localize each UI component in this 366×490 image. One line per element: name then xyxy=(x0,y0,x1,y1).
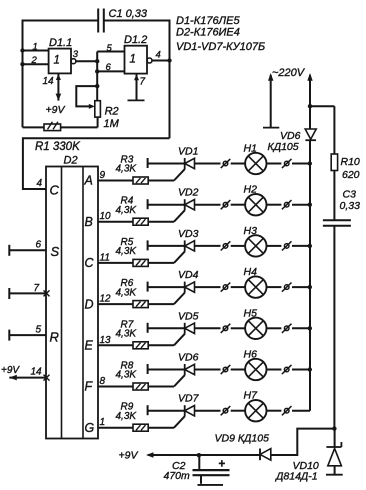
resistor R8 4,3K xyxy=(133,383,148,390)
svg-text:4,3K: 4,3K xyxy=(116,329,138,340)
svg-text:9: 9 xyxy=(100,170,106,181)
resistor R5 4,3K xyxy=(133,259,148,266)
svg-text:H7: H7 xyxy=(244,390,259,402)
svg-text:C: C xyxy=(50,183,60,198)
svg-text:H1: H1 xyxy=(244,143,257,155)
svg-text:4,3K: 4,3K xyxy=(116,370,138,381)
svg-text:H2: H2 xyxy=(244,184,258,196)
svg-text:R: R xyxy=(50,330,59,345)
svg-text:14: 14 xyxy=(31,367,43,378)
wire VD9 branch xyxy=(271,429,335,455)
inverter bubble pin 4 of D1.2 xyxy=(147,58,152,63)
wire to connector xyxy=(195,245,221,247)
wire to lamp H1 xyxy=(231,163,245,165)
svg-text:VD6: VD6 xyxy=(178,352,199,364)
lamp H6 xyxy=(245,359,266,380)
svg-text:VD7: VD7 xyxy=(178,393,200,405)
wire pin 1 of D1.1 xyxy=(23,50,49,52)
wire to supply rail xyxy=(292,163,310,165)
thyristor VD2 КУ107Б xyxy=(147,199,149,209)
svg-text:~220V: ~220V xyxy=(272,67,306,79)
svg-text:R1 330K: R1 330K xyxy=(35,141,81,153)
svg-text:5: 5 xyxy=(36,325,42,336)
svg-text:4,3K: 4,3K xyxy=(116,164,138,175)
connector contact left of H1 xyxy=(223,161,228,166)
svg-text:C: C xyxy=(85,256,95,270)
zener diode VD10 Д814Д-1 xyxy=(334,429,336,447)
svg-text:+9V: +9V xyxy=(46,104,66,116)
svg-text:R10: R10 xyxy=(341,156,360,168)
capacitor C1 0,33 xyxy=(97,9,99,33)
resistor R7 4,3K xyxy=(133,342,148,349)
svg-text:4,3K: 4,3K xyxy=(116,287,138,298)
svg-text:H5: H5 xyxy=(244,307,258,319)
wire to R10 branch xyxy=(310,105,334,107)
wire clock line to D2 pin 4 xyxy=(23,138,170,189)
pin 11 gate wire from D2 xyxy=(98,262,133,264)
wire to supply rail xyxy=(292,410,310,412)
wire right rail down to VD10 node xyxy=(333,226,335,429)
svg-text:B: B xyxy=(85,215,93,229)
pin 6 S input xyxy=(8,245,10,256)
svg-text:8: 8 xyxy=(100,376,106,387)
wire top loop (left rail + top wire to C1) xyxy=(23,21,99,128)
wire to connector xyxy=(195,204,221,206)
wire to lamp H2 xyxy=(231,204,245,206)
svg-text:1M: 1M xyxy=(104,118,120,130)
svg-text:D2: D2 xyxy=(64,155,78,167)
svg-text:R2: R2 xyxy=(105,106,119,118)
svg-text:+: + xyxy=(219,459,226,471)
svg-text:VD1-VD7-КУ107Б: VD1-VD7-КУ107Б xyxy=(176,41,265,53)
inverter bubble pin 3 of D1.1 xyxy=(71,59,76,64)
wire lamp to connector xyxy=(267,369,282,371)
svg-text:12: 12 xyxy=(100,294,112,305)
wire lamp to connector xyxy=(267,245,282,247)
resistor R4 4,3K xyxy=(133,218,148,225)
svg-text:D: D xyxy=(85,297,94,311)
wire to connector xyxy=(195,410,221,412)
svg-text:+9V: +9V xyxy=(1,365,20,376)
svg-text:S: S xyxy=(51,244,60,259)
svg-text:C3: C3 xyxy=(343,189,357,201)
svg-text:D1-К176ЛЕ5: D1-К176ЛЕ5 xyxy=(176,15,240,27)
svg-text:470m: 470m xyxy=(164,470,191,482)
connector contact right of H5 xyxy=(284,326,289,331)
wire to lamp H3 xyxy=(231,245,245,247)
connector contact left of H4 xyxy=(223,285,228,290)
wire +9V line xyxy=(148,454,260,456)
pin 10 gate wire from D2 xyxy=(98,221,133,223)
thyristor VD6 КУ107Б xyxy=(147,364,149,374)
svg-text:Д814Д-1: Д814Д-1 xyxy=(275,470,318,482)
lamp H2 xyxy=(245,194,266,215)
resistor R3 4,3K xyxy=(133,177,148,184)
svg-text:КД105: КД105 xyxy=(268,141,299,153)
resistor R9 4,3K xyxy=(133,424,148,431)
svg-text:13: 13 xyxy=(100,335,112,346)
resistor R10 620 xyxy=(333,106,335,154)
wire to supply rail xyxy=(292,204,310,206)
lamp H5 xyxy=(245,318,266,339)
wire gate to thyristor VD7 xyxy=(148,427,174,429)
pin 9 gate wire from D2 xyxy=(98,180,133,182)
svg-text:11: 11 xyxy=(100,252,110,263)
svg-text:1: 1 xyxy=(54,55,60,67)
wire gate to thyristor VD2 xyxy=(148,221,174,223)
wire lamp to connector xyxy=(267,327,282,329)
resistor R1 330K xyxy=(44,124,61,131)
wire to connector xyxy=(195,286,221,288)
diode VD6 КД105 xyxy=(305,129,316,139)
wire lamp to connector xyxy=(267,286,282,288)
wire gate to thyristor VD5 xyxy=(148,344,174,346)
svg-text:4,3K: 4,3K xyxy=(116,246,138,257)
wire lamp to connector xyxy=(267,410,282,412)
wire anode rail down rows xyxy=(309,140,311,411)
capacitor C3 0,33 xyxy=(333,171,335,221)
wire gate to thyristor VD6 xyxy=(148,386,174,388)
resistor R6 4,3K xyxy=(133,301,148,308)
pin 14 of D1.1 +9V supply arrow xyxy=(57,73,59,100)
thyristor VD7 КУ107Б xyxy=(147,405,149,415)
svg-text:5: 5 xyxy=(107,43,113,54)
thyristor VD5 КУ107Б xyxy=(147,323,149,333)
pin 13 gate wire from D2 xyxy=(98,344,133,346)
pin 12 gate wire from D2 xyxy=(98,303,133,305)
lamp H3 xyxy=(245,235,266,256)
svg-text:4,3K: 4,3K xyxy=(116,411,138,422)
capacitor C2 470m electrolytic xyxy=(197,453,201,457)
svg-text:H3: H3 xyxy=(244,225,258,237)
connector contact left of H3 xyxy=(223,244,228,249)
svg-text:VD1: VD1 xyxy=(178,146,198,158)
wire pin 6 of D1.2 xyxy=(97,70,124,72)
svg-text:E: E xyxy=(85,339,94,353)
svg-text:4: 4 xyxy=(156,50,161,61)
connector contact left of H5 xyxy=(223,326,228,331)
svg-text:VD5: VD5 xyxy=(178,310,199,322)
wire to connector xyxy=(195,369,221,371)
wire to connector xyxy=(195,163,221,165)
wire to connector xyxy=(195,327,221,329)
lamp H7 xyxy=(245,400,266,421)
pin 5 R input xyxy=(8,330,10,341)
connector contact right of H4 xyxy=(284,285,289,290)
svg-text:H4: H4 xyxy=(244,266,258,278)
wire gate to thyristor VD4 xyxy=(148,303,174,305)
wire C1 to right rail xyxy=(104,21,170,139)
wire to supply rail xyxy=(292,369,310,371)
svg-text:7: 7 xyxy=(34,283,40,294)
connector contact left of H2 xyxy=(223,202,228,207)
svg-text:VD6: VD6 xyxy=(280,130,301,142)
connector contact right of H2 xyxy=(284,202,289,207)
svg-text:6: 6 xyxy=(106,62,112,73)
wire pin 2 of D1.1 xyxy=(23,63,49,65)
svg-text:1: 1 xyxy=(100,417,106,428)
pin 7 of D1.2 to common terminal xyxy=(136,74,138,101)
wire to supply rail xyxy=(292,245,310,247)
diode VD9 КД105 xyxy=(259,449,261,461)
svg-text:C1 0,33: C1 0,33 xyxy=(109,8,148,20)
svg-text:+9V: +9V xyxy=(119,450,139,462)
logic gate D1.1 (K176LE5) xyxy=(49,49,71,74)
svg-text:4: 4 xyxy=(37,178,43,189)
wire to lamp H4 xyxy=(231,286,245,288)
connector contact right of H6 xyxy=(284,367,289,372)
svg-text:6: 6 xyxy=(36,240,42,251)
svg-text:7: 7 xyxy=(140,77,146,88)
svg-text:VD2: VD2 xyxy=(178,187,199,199)
svg-text:2: 2 xyxy=(31,55,38,66)
connector contact right of H3 xyxy=(284,244,289,249)
svg-text:10: 10 xyxy=(100,211,112,222)
wire to supply rail xyxy=(292,327,310,329)
svg-text:A: A xyxy=(84,174,93,188)
thyristor VD1 КУ107Б xyxy=(147,158,149,168)
svg-text:1: 1 xyxy=(33,42,38,53)
connector contact right of H1 xyxy=(284,161,289,166)
wire gate to thyristor VD3 xyxy=(148,262,174,264)
thyristor VD4 КУ107Б xyxy=(147,282,149,292)
svg-text:D2-К176ИЕ4: D2-К176ИЕ4 xyxy=(176,27,240,39)
wire pin 5 of D1.2 xyxy=(97,51,124,53)
pin 8 gate wire from D2 xyxy=(98,386,133,388)
svg-text:D1.1: D1.1 xyxy=(49,37,72,49)
connector contact right of H7 xyxy=(284,408,289,413)
wire to lamp H6 xyxy=(231,369,245,371)
resistor R2 1M trimmer xyxy=(95,101,101,117)
connector contact left of H7 xyxy=(223,408,228,413)
svg-text:0,33: 0,33 xyxy=(340,200,361,212)
pin 1 gate wire from D2 xyxy=(98,427,133,429)
svg-text:G: G xyxy=(85,421,95,435)
wire lamp to connector xyxy=(267,163,282,165)
wire riser node between gates xyxy=(96,52,98,101)
pin 7 input xyxy=(8,288,10,299)
svg-text:620: 620 xyxy=(342,169,360,181)
svg-text:14: 14 xyxy=(43,76,55,87)
wire to lamp H7 xyxy=(231,410,245,412)
wire gate to thyristor VD1 xyxy=(148,180,174,182)
svg-text:H6: H6 xyxy=(244,349,258,361)
wire lamp to connector xyxy=(267,204,282,206)
wire to supply rail xyxy=(292,286,310,288)
connector contact left of H6 xyxy=(223,367,228,372)
logic gate D1.2 (K176LE5) xyxy=(125,46,148,74)
counter IC D2 (K176IE4) xyxy=(46,167,98,439)
svg-text:3: 3 xyxy=(73,49,79,60)
svg-text:4,3K: 4,3K xyxy=(116,205,138,216)
pin 14 +9V supply xyxy=(9,377,46,379)
svg-text:1: 1 xyxy=(130,54,136,66)
lamp H4 xyxy=(245,276,266,297)
svg-text:D1.2: D1.2 xyxy=(124,34,147,46)
svg-text:VD3: VD3 xyxy=(178,228,199,240)
wire to lamp H5 xyxy=(231,327,245,329)
svg-text:VD9 КД105: VD9 КД105 xyxy=(215,433,270,445)
svg-text:VD4: VD4 xyxy=(178,269,199,281)
thyristor VD3 КУ107Б xyxy=(147,240,149,250)
lamp H1 xyxy=(245,153,266,174)
